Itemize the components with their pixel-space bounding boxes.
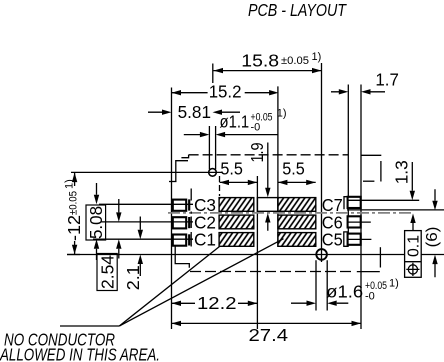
svg-text:ø1.1: ø1.1 <box>220 111 250 131</box>
no-conductor hatched area left block row C2 <box>219 215 254 229</box>
hole Ø1.1 circle <box>209 169 217 177</box>
no-conductor hatched area right block row C6 <box>278 215 316 229</box>
note NO CONDUCTOR ALLOWED IN THIS AREA. <box>0 239 284 362</box>
dimension 5.81 <box>148 102 240 122</box>
no-conductor hatched area right block row C7 <box>278 198 316 212</box>
hole Ø1.6 circle with crosshair <box>316 249 327 260</box>
svg-text:-0: -0 <box>251 122 261 134</box>
dimension (6) <box>424 189 441 277</box>
svg-text:5.5: 5.5 <box>282 158 305 178</box>
no-conductor hatched area right block row C5 <box>278 233 316 247</box>
svg-text:2.1: 2.1 <box>123 265 143 290</box>
svg-text:1.3: 1.3 <box>392 160 412 184</box>
svg-text:±0.05: ±0.05 <box>281 55 309 67</box>
wire left board edge extension line <box>171 88 173 330</box>
centerline horizontal dash-dot (grey) <box>168 212 414 214</box>
wire right pads left edge extension <box>347 85 349 247</box>
wire center column left edge extension <box>256 176 258 329</box>
svg-text:±0.05: ±0.05 <box>68 191 80 215</box>
svg-text:0.1: 0.1 <box>405 235 422 257</box>
wire pad tick C2 <box>188 217 190 228</box>
svg-text:15.2: 15.2 <box>209 81 242 101</box>
svg-text:1): 1) <box>64 179 76 189</box>
dimension Ø1.6 +0.05/-0 1) <box>291 277 399 306</box>
wire bottom edge line through hole2 <box>67 254 444 256</box>
dimension 5.5 left <box>220 158 258 185</box>
dimension 2.1 <box>123 217 143 291</box>
svg-text:5.5: 5.5 <box>220 158 243 178</box>
wire Ø1.6 edge extension lines (down) <box>316 260 327 310</box>
svg-text:1): 1) <box>312 51 322 63</box>
wire leader to right hatch block <box>119 239 283 326</box>
svg-text:27.4: 27.4 <box>249 325 289 345</box>
component outline top-left corner bracket <box>176 161 188 182</box>
wire pad tick C3 <box>188 199 190 210</box>
component outline left edge lower with step <box>175 246 189 267</box>
pad C7 <box>348 197 361 208</box>
pad C6 <box>348 216 361 227</box>
dimension 1.9 <box>247 143 271 231</box>
wire 5.5 left dashed extension above hatch <box>219 176 221 196</box>
pad C5 <box>348 234 361 245</box>
wire hole1 center short extension (top) <box>212 64 214 84</box>
dimension -12 ±0.05 1) <box>64 173 85 255</box>
pad C2 <box>173 217 186 228</box>
svg-text:ø1.6: ø1.6 <box>326 282 363 302</box>
svg-text:1.7: 1.7 <box>375 69 399 89</box>
svg-text:ALLOWED IN THIS AREA.: ALLOWED IN THIS AREA. <box>0 345 160 362</box>
wire bracket C7 <box>344 197 349 210</box>
svg-text:12.2: 12.2 <box>197 293 237 313</box>
wire leader tail <box>60 325 119 327</box>
dimension Ø1.1 +0.05/-0 1) <box>184 108 287 138</box>
feature control frame 0.1 with position symbol <box>405 214 423 278</box>
dimension 1.3 <box>392 160 415 200</box>
wire row C2 center line <box>101 221 193 223</box>
svg-text:C1: C1 <box>194 230 216 250</box>
wire hole2 vertical center line <box>321 63 323 262</box>
wire bracket C5 <box>344 232 349 246</box>
svg-text:C5: C5 <box>322 230 343 250</box>
svg-text:1.9: 1.9 <box>247 143 267 163</box>
svg-text:(6): (6) <box>424 227 441 248</box>
centerline vertical dash-dot left pads <box>190 189 192 247</box>
pad C1 <box>173 235 186 246</box>
wire C7 lower reference line <box>347 209 444 211</box>
dimension 5.08 boxed <box>86 183 106 260</box>
svg-text:15.8: 15.8 <box>241 50 279 70</box>
dimension 27.4 <box>172 321 362 345</box>
wire hole1 slot edge lines <box>209 126 215 169</box>
svg-text:-12: -12 <box>64 215 84 241</box>
svg-text:1): 1) <box>277 108 287 120</box>
component outline bottom edge dashed <box>190 271 352 273</box>
pad C3 <box>173 200 186 211</box>
component outline dashed top edge with step <box>181 155 188 158</box>
wire row C1 center line <box>93 238 193 240</box>
wire row C3 center line <box>99 203 193 205</box>
dimension 12.2 <box>172 293 258 313</box>
wire right pads right edge extension <box>360 85 362 330</box>
wire pad tick C1 <box>188 234 190 245</box>
svg-text:1): 1) <box>389 277 399 289</box>
svg-text:5.08: 5.08 <box>86 206 106 239</box>
dimension 5.5 right <box>278 158 316 185</box>
dimension 2.54 boxed <box>97 199 122 291</box>
wire leader to bottom edge <box>119 247 219 327</box>
svg-text:2.54: 2.54 <box>97 255 117 289</box>
wire C6 stub line <box>347 221 371 223</box>
dimension 1.7 <box>331 69 399 94</box>
no-conductor hatched area left block row C3 <box>219 198 254 212</box>
wire hole1 horizontal center line <box>71 171 222 173</box>
svg-text:5.81: 5.81 <box>178 102 211 122</box>
wire pad center lines overlay <box>173 200 360 239</box>
no-conductor hatched area left block row C1 <box>219 233 254 247</box>
svg-text:PCB - LAYOUT: PCB - LAYOUT <box>248 0 347 20</box>
wire center column right edge extension <box>277 86 279 246</box>
center pad outline <box>257 198 278 212</box>
wire C7 upper reference line <box>347 199 419 201</box>
svg-text:-0: -0 <box>365 291 375 303</box>
wire C5 stub line <box>347 238 371 240</box>
dimension 15.2 <box>172 81 279 101</box>
component outline right edge <box>380 161 382 182</box>
dimension 15.8 ±0.05 1) <box>214 50 322 73</box>
